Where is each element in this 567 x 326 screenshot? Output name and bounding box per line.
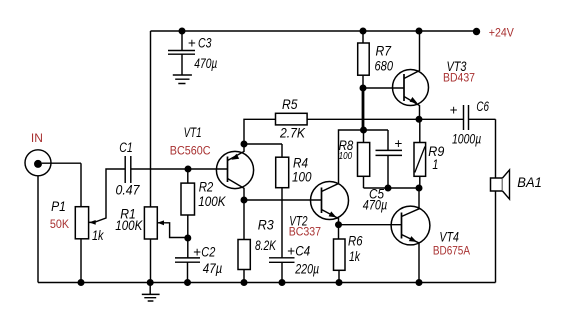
svg-text:+: +: [394, 136, 402, 151]
svg-text:+24V: +24V: [489, 27, 514, 39]
svg-text:1k: 1k: [349, 249, 361, 264]
svg-text:VT1: VT1: [184, 125, 202, 140]
svg-text:BC337: BC337: [289, 226, 321, 238]
svg-text:47µ: 47µ: [203, 261, 223, 276]
svg-text:220µ: 220µ: [294, 262, 319, 277]
svg-text:100K: 100K: [115, 218, 143, 233]
svg-text:R6: R6: [348, 234, 363, 249]
svg-text:BD437: BD437: [443, 73, 475, 85]
svg-text:470µ: 470µ: [363, 198, 388, 213]
svg-text:R7: R7: [376, 44, 392, 59]
svg-text:C1: C1: [119, 140, 133, 155]
svg-text:C2: C2: [201, 245, 215, 260]
svg-text:0.47: 0.47: [116, 183, 140, 198]
svg-text:50K: 50K: [50, 219, 70, 231]
svg-text:100: 100: [339, 150, 353, 162]
svg-text:P1: P1: [51, 199, 66, 214]
svg-text:+: +: [188, 36, 196, 51]
svg-text:BD675A: BD675A: [433, 245, 470, 257]
svg-text:680: 680: [375, 59, 394, 74]
svg-text:R2: R2: [199, 179, 214, 194]
svg-text:R3: R3: [258, 217, 274, 232]
svg-text:2.7K: 2.7K: [279, 125, 306, 140]
svg-text:IN: IN: [31, 133, 43, 145]
svg-text:R5: R5: [282, 97, 298, 112]
svg-text:+: +: [450, 103, 458, 118]
svg-text:470µ: 470µ: [194, 56, 217, 71]
svg-text:C4: C4: [295, 243, 310, 258]
svg-text:R4: R4: [293, 156, 308, 171]
svg-text:C6: C6: [476, 99, 489, 114]
svg-text:BA1: BA1: [517, 174, 542, 190]
svg-text:1: 1: [432, 157, 438, 172]
svg-text:1k: 1k: [92, 228, 105, 243]
svg-text:1000µ: 1000µ: [452, 131, 481, 146]
svg-text:100: 100: [292, 170, 312, 185]
svg-text:VT4: VT4: [439, 230, 459, 245]
svg-text:+: +: [287, 243, 295, 258]
svg-text:+: +: [193, 245, 201, 260]
svg-text:C3: C3: [198, 36, 212, 51]
svg-text:100K: 100K: [198, 194, 226, 209]
svg-text:BC560C: BC560C: [170, 146, 211, 158]
svg-text:8.2K: 8.2K: [255, 238, 277, 253]
